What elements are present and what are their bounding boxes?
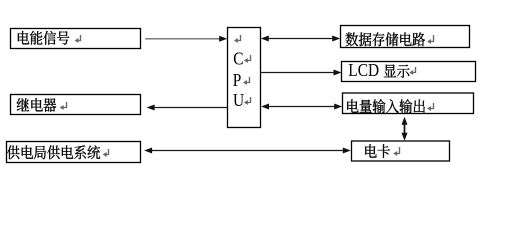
arrowhead into CPU left	[219, 36, 227, 42]
text 数据存储电路	[346, 32, 426, 46]
pilcrow after 电卡	[396, 147, 399, 154]
pilcrow after 电能信号	[78, 35, 81, 41]
box 电卡	[352, 141, 450, 161]
box 继电器	[11, 95, 141, 115]
box 供电局供电系统	[7, 142, 141, 163]
wire 电量输入输出 to 电卡 (vertical double arrow)	[404, 121, 406, 135]
pilcrow after 数据存储电路	[430, 35, 433, 42]
pilcrow after 供电局供电系统	[106, 149, 109, 155]
pilcrow after 继电器	[63, 102, 67, 108]
wire CPU to 电量输入输出 (double arrow)	[266, 106, 337, 108]
pilcrow after C	[247, 55, 251, 61]
svg-text:LCD: LCD	[348, 60, 379, 80]
svg-text:U: U	[233, 90, 244, 110]
wire CPU to LCD 显示	[261, 72, 336, 74]
text 供电局供电系统	[7, 145, 100, 159]
text 电量输入输出	[347, 99, 425, 113]
box 电能信号	[11, 29, 141, 49]
pilcrow after 电量输入输出	[430, 103, 433, 109]
text 电卡	[365, 144, 390, 158]
wire CPU to 继电器	[151, 107, 227, 109]
box 电量输入输出	[343, 93, 474, 114]
pilcrow CPU line1	[237, 35, 241, 41]
pilcrow after U	[247, 97, 251, 103]
pilcrow after 显示	[412, 67, 415, 73]
box CPU	[228, 28, 261, 128]
svg-text:C: C	[233, 48, 243, 68]
wire 供电局供电系统 to 电卡 (double arrow)	[149, 150, 346, 152]
box LCD 显示	[342, 62, 476, 82]
svg-text:P: P	[233, 70, 242, 90]
text 继电器	[17, 98, 57, 112]
pilcrow after P	[246, 77, 250, 83]
wire 电能信号 to CPU	[145, 38, 221, 40]
text 显示	[384, 64, 410, 78]
wire CPU to 数据存储电路 (double arrow)	[266, 38, 335, 40]
box 数据存储电路	[341, 26, 470, 48]
text 电能信号	[18, 31, 69, 45]
